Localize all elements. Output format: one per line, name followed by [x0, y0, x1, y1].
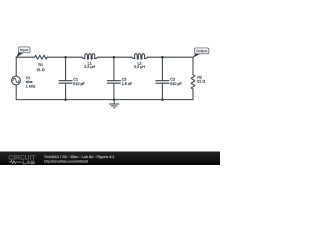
junction dot bottom ground [113, 98, 116, 101]
node B junction dot top [113, 56, 116, 59]
voltage source V1 [12, 76, 21, 85]
wire output corner down to R2 [192, 57, 194, 74]
svg-text:3.3 μH: 3.3 μH [134, 65, 145, 69]
wire C3 to bottom rail [113, 83, 115, 99]
capacitor C1 [59, 81, 72, 84]
wire L2 to node C [148, 56, 163, 58]
svg-text:Input: Input [20, 48, 29, 52]
svg-text:510 pF: 510 pF [170, 82, 182, 86]
svg-text:510 pF: 510 pF [73, 82, 85, 86]
capacitor C2 [156, 81, 169, 84]
wire R2 to bottom rail [192, 89, 194, 99]
svg-text:3.3 μH: 3.3 μH [84, 65, 95, 69]
capacitor C3 [107, 81, 120, 84]
wire node B to L2 [114, 56, 132, 58]
wire node B down to C3 [113, 57, 115, 80]
wire left vertical input [15, 57, 17, 76]
wire node C to output corner [162, 56, 193, 58]
junction dot bottom C1 [64, 98, 67, 101]
inductor L1 [82, 54, 98, 60]
Output flag [193, 48, 209, 58]
Input flag [16, 47, 30, 58]
wire node C down to C2 [161, 57, 163, 80]
junction dot bottom C2 [161, 98, 164, 101]
wire V1 to bottom rail [15, 85, 17, 100]
inductor L2 [132, 54, 148, 60]
svg-text:1.6 nF: 1.6 nF [122, 82, 133, 86]
resistor R2 [191, 75, 195, 90]
node A junction dot top [64, 56, 67, 59]
wire C1 to bottom rail [65, 83, 67, 99]
svg-text:51 Ω: 51 Ω [37, 68, 45, 72]
node C junction dot top [161, 56, 164, 59]
wire R1 to node A [47, 56, 65, 58]
wire node A down to C1 [65, 57, 67, 80]
logo zigzag [9, 161, 22, 164]
footer bar [0, 152, 220, 166]
svg-text:1 kHz: 1 kHz [26, 85, 36, 89]
ground [109, 100, 119, 108]
wire bottom rail [16, 99, 193, 101]
wire L1 to node B [98, 56, 114, 58]
svg-text:51 Ω: 51 Ω [197, 79, 205, 83]
svg-text:Output: Output [196, 49, 208, 53]
svg-text:Todd312 / SS - Elec - Lab #2 -: Todd312 / SS - Elec - Lab #2 - Figure 4-… [44, 155, 115, 159]
wire C2 to bottom rail [161, 83, 163, 99]
svg-text:http://circuitlab.com/c64t5zd8: http://circuitlab.com/c64t5zd8 [44, 160, 88, 164]
resistor R1 [35, 55, 48, 59]
wire top rail left [16, 56, 34, 58]
svg-text:R1: R1 [38, 63, 43, 67]
svg-text:LAB: LAB [22, 160, 36, 165]
wire node A to L1 [66, 56, 82, 58]
